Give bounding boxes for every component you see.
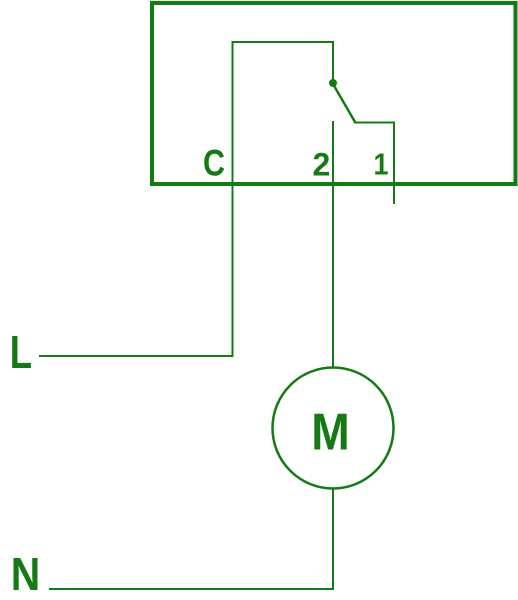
svg-text:C: C — [203, 143, 225, 184]
svg-text:M: M — [311, 404, 350, 462]
svg-text:L: L — [10, 326, 32, 378]
svg-text:1: 1 — [374, 147, 389, 182]
svg-text:2: 2 — [313, 147, 331, 183]
svg-text:N: N — [11, 548, 41, 600]
